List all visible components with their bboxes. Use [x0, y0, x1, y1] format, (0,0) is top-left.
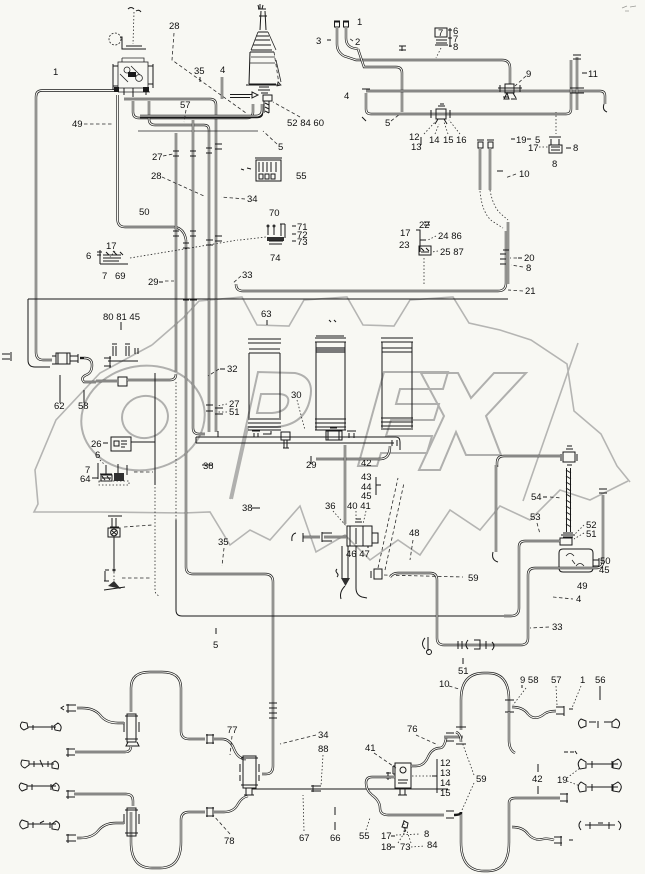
svg-text:59: 59	[468, 573, 479, 584]
left spare part 1	[20, 722, 61, 731]
pipe from F59 fitting right-down loop	[390, 495, 603, 645]
vertical pipe x218 clamp marks	[173, 144, 222, 156]
svg-text:4: 4	[576, 594, 581, 605]
fitting to right with leader 59	[371, 569, 382, 579]
svg-text:42: 42	[361, 458, 372, 469]
svg-text:54: 54	[531, 492, 542, 503]
svg-text:18: 18	[381, 842, 392, 853]
right clip mark	[564, 751, 577, 754]
elbow lower-right top to fitting 42	[509, 798, 560, 803]
svg-text:42: 42	[532, 774, 543, 785]
svg-text:26: 26	[91, 439, 102, 450]
watermark letter O outer	[73, 356, 213, 480]
svg-text:57: 57	[551, 675, 562, 686]
svg-text:1: 1	[357, 17, 362, 28]
clamp marks on long vertical x273	[269, 703, 277, 718]
svg-text:7: 7	[438, 28, 443, 39]
svg-text:57: 57	[180, 100, 191, 111]
watermark slash	[523, 343, 578, 501]
vertical pipe 11	[576, 57, 578, 110]
svg-text:5: 5	[278, 142, 283, 153]
svg-text:25 87: 25 87	[440, 247, 464, 258]
hand control valve assembly top-left	[113, 58, 153, 97]
tee bottom to fitting f2	[75, 746, 131, 752]
svg-text:6: 6	[86, 251, 91, 262]
left spare part 4	[20, 820, 60, 830]
svg-text:33: 33	[242, 270, 253, 281]
pipe y114 with left U-end	[366, 60, 571, 114]
svg-text:77: 77	[227, 725, 238, 736]
svg-text:35: 35	[218, 537, 229, 548]
svg-text:23: 23	[399, 240, 410, 251]
watermark letter X	[419, 373, 526, 470]
svg-text:8: 8	[552, 159, 557, 170]
lower-right loop	[461, 803, 509, 871]
outer left line (second rail)	[28, 299, 50, 367]
svg-text:58: 58	[78, 401, 89, 412]
svg-text:17: 17	[106, 241, 117, 252]
pipe from coil to fitting 20	[507, 222, 509, 284]
svg-text:17: 17	[400, 228, 411, 239]
svg-text:19: 19	[516, 135, 527, 146]
pipe 50 from valve down-left leg	[118, 95, 187, 240]
tanks top bands	[248, 320, 413, 353]
svg-text:8: 8	[573, 143, 578, 154]
watermark letter O inner	[119, 392, 172, 441]
hose lower-right to fitting bottom	[512, 827, 554, 840]
hose lower tee left port to f4	[77, 823, 124, 838]
svg-text:55: 55	[296, 171, 307, 182]
vertical x496 with hook	[495, 465, 497, 552]
component 8/17 small bracket right	[549, 112, 562, 153]
svg-text:45: 45	[599, 565, 610, 576]
page corner marks	[622, 6, 636, 11]
hose run to vertical x402	[358, 49, 402, 112]
valve lower pipes to junction elbows	[124, 99, 216, 432]
svg-text:8: 8	[526, 263, 531, 274]
svg-text:1: 1	[53, 67, 58, 78]
vertical pipe x186 (to front axle)	[186, 240, 273, 774]
small part top-left (bracket with ring)	[109, 8, 146, 50]
svg-text:16: 16	[456, 135, 467, 146]
hose run to elbow down right	[350, 58, 510, 84]
right spare part 3	[578, 759, 621, 769]
component 74 solenoid	[130, 224, 285, 258]
svg-text:3: 3	[316, 36, 321, 47]
svg-text:34: 34	[318, 730, 329, 741]
manifold rails	[196, 437, 394, 443]
thin vertical x176 dotted lower	[175, 382, 177, 520]
long thin line y616	[182, 615, 504, 617]
svg-text:17: 17	[381, 831, 392, 842]
svg-text:46 47: 46 47	[346, 549, 370, 560]
svg-text:51: 51	[458, 666, 469, 677]
svg-text:64: 64	[80, 474, 91, 485]
pipe y456 right segment	[497, 456, 560, 467]
svg-text:51: 51	[586, 529, 597, 540]
upper-left tee	[124, 714, 139, 746]
svg-text:10: 10	[519, 169, 530, 180]
long single line y299	[28, 298, 508, 300]
lower-left tee	[124, 808, 139, 836]
svg-text:5: 5	[213, 640, 218, 651]
svg-text:50: 50	[139, 207, 150, 218]
svg-text:11: 11	[588, 69, 598, 80]
svg-text:24 86: 24 86	[438, 231, 462, 242]
component 7/6/7/8 box	[435, 28, 448, 58]
svg-text:73: 73	[297, 237, 308, 248]
svg-text:51: 51	[229, 407, 240, 418]
tanks bottom bands	[248, 418, 413, 430]
fitting 7/64	[98, 463, 153, 485]
long thin axle line y789	[252, 788, 448, 790]
svg-text:2: 2	[355, 37, 360, 48]
svg-text:63: 63	[261, 309, 272, 320]
svg-text:9: 9	[526, 69, 531, 80]
left port pipe	[324, 536, 346, 538]
hatched vertical hose x568	[567, 468, 571, 532]
svg-text:14: 14	[429, 135, 440, 146]
hose valve41 top to upper-right loop	[411, 737, 446, 766]
hose upper-right to fitting 57	[512, 707, 556, 718]
svg-text:84: 84	[427, 840, 438, 851]
long pipe y91 right section	[366, 91, 605, 104]
svg-text:73: 73	[400, 842, 411, 853]
component 55 relay block	[241, 158, 282, 181]
vertical pipe bundle x176	[175, 133, 177, 372]
watermark letter E	[358, 372, 448, 466]
pipe f3 to lower tee top	[74, 794, 133, 806]
svg-text:62: 62	[54, 401, 65, 412]
svg-text:13: 13	[411, 142, 422, 153]
watermark letter P	[230, 372, 311, 499]
label 4 right lower	[553, 597, 573, 599]
svg-text:5: 5	[385, 118, 390, 129]
svg-text:28: 28	[151, 171, 162, 182]
small part near 17/18 labels	[402, 821, 408, 832]
pipe joystick to left	[140, 113, 262, 117]
thin line y131 to joystick area	[138, 130, 258, 132]
valve 41 assembly bottom center	[386, 763, 411, 795]
WATERMARK	[34, 297, 630, 560]
lower-left loop right leg	[181, 812, 205, 820]
svg-text:48: 48	[409, 528, 420, 539]
svg-text:32: 32	[227, 364, 238, 375]
svg-text:19: 19	[557, 775, 568, 786]
svg-text:49: 49	[72, 119, 83, 130]
valve at right on y458	[561, 446, 577, 465]
right spare part 1	[579, 719, 620, 728]
svg-text:38: 38	[242, 503, 253, 514]
lower-left loop arch	[131, 812, 181, 868]
central brake valve assembly	[292, 445, 463, 599]
center tee assembly	[240, 756, 259, 795]
svg-text:9 58: 9 58	[520, 675, 539, 686]
box 26	[111, 437, 155, 451]
svg-text:59: 59	[476, 774, 487, 785]
chain 6/17/18 fitting	[104, 516, 152, 590]
svg-text:88: 88	[318, 744, 329, 755]
svg-text:4: 4	[344, 91, 349, 102]
svg-text:67: 67	[299, 833, 310, 844]
svg-text:7: 7	[102, 271, 107, 282]
svg-text:55: 55	[359, 831, 370, 842]
pipe T left then down to y616	[504, 541, 560, 616]
svg-text:53: 53	[530, 512, 541, 523]
fittings on y645	[423, 637, 495, 655]
svg-text:78: 78	[224, 836, 235, 847]
svg-text:52 84 60: 52 84 60	[287, 118, 324, 129]
svg-text:35: 35	[194, 66, 205, 77]
hose valve41 left to lower-right loop	[366, 777, 444, 815]
svg-text:56: 56	[595, 675, 606, 686]
fitting 17/6/7/69	[97, 250, 128, 264]
svg-text:36: 36	[325, 501, 336, 512]
svg-text:17: 17	[528, 143, 539, 154]
pipe from valve left to page-left vertical	[36, 91, 114, 361]
svg-text:74: 74	[270, 253, 281, 264]
svg-text:27: 27	[152, 152, 163, 163]
svg-text:49: 49	[577, 581, 588, 592]
svg-text:28: 28	[169, 21, 180, 32]
right spare part 5	[579, 821, 621, 830]
svg-text:33: 33	[552, 622, 563, 633]
hoses 1/2 top right	[334, 21, 358, 58]
upper-left loop arch	[131, 672, 181, 731]
vertical stub under label 4	[221, 77, 223, 99]
svg-text:15: 15	[443, 135, 454, 146]
fitting 9	[498, 84, 522, 99]
svg-text:66: 66	[330, 833, 341, 844]
pipe manifold elbow down-left y459	[316, 446, 390, 459]
svg-text:41: 41	[365, 743, 376, 754]
manifold fittings	[252, 428, 400, 450]
svg-text:8: 8	[453, 42, 458, 53]
svg-text:15: 15	[440, 788, 451, 799]
hidden dashed diagonals	[378, 478, 398, 568]
svg-text:4: 4	[220, 65, 225, 76]
valve 50/45 body	[559, 549, 599, 572]
upper-right loop	[461, 673, 509, 730]
thin vertical x155	[154, 373, 156, 485]
hose tee to left fitting f1	[77, 708, 124, 723]
gear outline left edge	[34, 345, 183, 513]
svg-text:40 41: 40 41	[347, 501, 371, 512]
left spare part 2	[21, 760, 59, 769]
joystick assembly	[246, 4, 281, 113]
left mid assembly 62/58	[2, 344, 176, 386]
gear outline top teeth	[152, 297, 630, 482]
gear outline bottom teeth	[183, 481, 628, 560]
left spare part 3	[19, 783, 59, 791]
svg-text:76: 76	[407, 724, 418, 735]
stub fittings under pipe y114 right	[477, 140, 508, 228]
svg-text:1: 1	[580, 675, 585, 686]
elbow x235 to long pipe y291	[236, 231, 506, 291]
svg-text:34: 34	[247, 194, 258, 205]
svg-text:70: 70	[269, 208, 280, 219]
svg-text:80 81 45: 80 81 45	[103, 312, 140, 323]
svg-text:6: 6	[95, 450, 100, 461]
T fitting 52/51	[560, 533, 575, 545]
tanks side walls	[316, 342, 345, 430]
svg-text:69: 69	[115, 271, 126, 282]
fitting cluster 12-16 on pipe y114	[431, 104, 450, 124]
svg-text:38: 38	[203, 461, 214, 472]
svg-text:29: 29	[148, 277, 159, 288]
svg-text:21: 21	[525, 286, 536, 297]
vertical pipe x193	[193, 120, 205, 434]
svg-text:8: 8	[424, 829, 429, 840]
upper-left loop right leg to center	[181, 731, 205, 739]
svg-text:30: 30	[291, 390, 302, 401]
right spare part 4	[578, 782, 621, 792]
svg-text:10: 10	[439, 679, 450, 690]
